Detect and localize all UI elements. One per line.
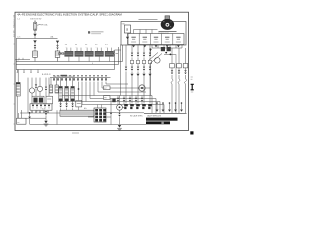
svg-text:●·●: ●·● <box>105 44 107 46</box>
svg-text:W/ CALIF. SPEC: W/ CALIF. SPEC <box>130 114 143 117</box>
svg-text:↓ ↓: ↓ ↓ <box>85 46 87 48</box>
svg-text:4A–FE ENGINE ELECTRONIC FUEL I: 4A–FE ENGINE ELECTRONIC FUEL INJECTION S… <box>17 13 122 17</box>
svg-text:●·●: ●·● <box>95 44 97 46</box>
svg-text:1.0: 1.0 <box>17 60 19 62</box>
svg-text:uu: uu <box>17 122 19 124</box>
svg-text:↓ ↓: ↓ ↓ <box>105 46 107 48</box>
svg-text:↓ ↓: ↓ ↓ <box>95 46 97 48</box>
svg-text:IGNITION SW: IGNITION SW <box>30 18 42 20</box>
svg-text:I–1: I–1 <box>17 19 20 21</box>
svg-text:W–B: W–B <box>42 109 45 111</box>
svg-text:↓ ↓: ↓ ↓ <box>75 46 77 48</box>
svg-text:1.25: 1.25 <box>17 37 20 39</box>
svg-text:↓ ↓: ↓ ↓ <box>65 46 67 48</box>
svg-text:DISTRIBUTOR: DISTRIBUTOR <box>158 33 170 35</box>
svg-text:F7: F7 <box>104 88 106 90</box>
svg-text:EFI SYSTEM · 4A–FE: EFI SYSTEM · 4A–FE <box>12 15 15 38</box>
svg-text:S: S <box>126 28 128 32</box>
svg-text:F8: F8 <box>104 98 106 100</box>
svg-text:CALIF. VEHICLES: CALIF. VEHICLES <box>147 115 162 118</box>
svg-text:0.5: 0.5 <box>36 111 38 113</box>
svg-text:●·●: ●·● <box>75 44 77 46</box>
svg-text:4: 4 <box>92 63 93 65</box>
svg-text:●·●: ●·● <box>85 44 87 46</box>
svg-text:●·●: ●·● <box>65 44 67 46</box>
svg-text:EFI 15A: EFI 15A <box>41 23 48 26</box>
svg-text:B–W W–R: B–W W–R <box>42 74 51 76</box>
